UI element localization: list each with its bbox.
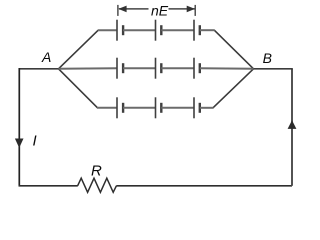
dimension marker nE: right tick [194, 5, 196, 16]
top branch wire segment 1 [98, 29, 117, 31]
dimension marker nE: left line segment [119, 8, 149, 10]
svg-text:B: B [263, 50, 272, 66]
top branch cell 2 short plate [160, 25, 162, 35]
svg-text:nE: nE [151, 3, 169, 19]
svg-text:A: A [41, 49, 51, 65]
middle branch wire segment 1 [59, 67, 118, 70]
middle branch wire segment 2 [123, 67, 155, 69]
middle branch wire segment 4 [200, 67, 254, 70]
dimension marker nE: right arrowhead [187, 6, 195, 13]
top branch cell 1 long plate [116, 20, 118, 41]
wire: node B to right vertical [254, 68, 293, 70]
wire: right vertical [291, 69, 293, 186]
bottom branch wire segment 4 [200, 107, 214, 109]
wire: diagonal bottom branch to B [213, 69, 254, 108]
middle branch cell 2 short plate [160, 63, 162, 73]
wire: diagonal A to bottom branch [59, 69, 98, 108]
top branch wire segment 4 [200, 29, 215, 31]
dimension marker nE: left tick [117, 5, 119, 16]
top branch cell 3 long plate [193, 20, 195, 41]
top branch wire segment 3 [161, 29, 194, 31]
bottom branch cell 2 short plate [160, 103, 162, 113]
bottom branch wire segment 1 [97, 107, 117, 109]
wire: left vertical [18, 68, 20, 186]
svg-text:I: I [33, 132, 37, 149]
wire: left horizontal into node A [19, 68, 58, 70]
middle branch cell 2 long plate [155, 58, 157, 79]
top branch cell 3 short plate [199, 25, 201, 35]
wire: diagonal A to top branch [59, 30, 99, 69]
wire: bottom right segment from resistor [116, 185, 292, 187]
top branch cell 2 long plate [155, 20, 157, 41]
top branch cell 1 short plate [122, 25, 124, 35]
bottom branch cell 2 long plate [155, 97, 157, 118]
middle branch cell 3 long plate [193, 58, 195, 79]
bottom branch cell 3 long plate [193, 97, 195, 118]
current arrow (up) on right wire [288, 120, 297, 129]
bottom branch cell 1 short plate [122, 103, 124, 113]
dimension marker nE: left arrowhead [118, 6, 126, 13]
middle branch cell 1 short plate [122, 63, 124, 73]
bottom branch cell 3 short plate [199, 103, 201, 113]
wire: diagonal top branch to B [214, 30, 253, 69]
current arrow I (down) on left wire [15, 139, 24, 148]
bottom branch wire segment 2 [123, 107, 155, 109]
bottom branch wire segment 3 [161, 107, 194, 109]
middle branch wire segment 3 [161, 67, 194, 69]
wire: bottom left segment to resistor [19, 185, 78, 187]
top branch wire segment 2 [123, 29, 155, 31]
middle branch cell 1 long plate [116, 58, 118, 79]
svg-text:R: R [91, 163, 102, 180]
bottom branch cell 1 long plate [116, 97, 118, 118]
middle branch cell 3 short plate [199, 63, 201, 73]
dimension marker nE: right line segment [169, 8, 195, 10]
resistor R zigzag [78, 178, 117, 192]
